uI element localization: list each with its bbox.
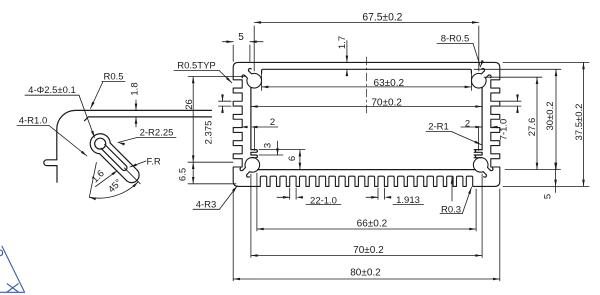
svg-text:2-R1: 2-R1 xyxy=(428,122,449,133)
svg-text:2: 2 xyxy=(465,119,470,130)
svg-text:2: 2 xyxy=(270,117,275,128)
svg-text:67.5±0.2: 67.5±0.2 xyxy=(362,11,402,23)
svg-text:2-R2.25: 2-R2.25 xyxy=(140,128,174,139)
svg-text:7-1.0: 7-1.0 xyxy=(499,119,510,141)
svg-text:6: 6 xyxy=(287,156,298,161)
svg-text:1.7: 1.7 xyxy=(337,36,348,49)
svg-text:27.6: 27.6 xyxy=(527,118,538,137)
svg-text:8-R0.5: 8-R0.5 xyxy=(441,34,470,45)
svg-text:1.8: 1.8 xyxy=(130,82,141,95)
svg-text:26: 26 xyxy=(184,99,195,110)
svg-text:3: 3 xyxy=(263,143,274,148)
svg-text:70±0.2: 70±0.2 xyxy=(371,97,402,108)
svg-text:5: 5 xyxy=(238,32,244,43)
svg-text:37.5±0.2: 37.5±0.2 xyxy=(574,104,585,141)
svg-text:R0.5: R0.5 xyxy=(103,72,123,83)
svg-text:80±0.2: 80±0.2 xyxy=(350,267,381,278)
svg-text:R0.5TYP: R0.5TYP xyxy=(177,61,216,72)
svg-text:4-R1.0: 4-R1.0 xyxy=(19,116,48,127)
svg-text:45°: 45° xyxy=(106,177,124,195)
svg-text:66±0.2: 66±0.2 xyxy=(357,219,388,230)
svg-text:4-Φ2.5±0.1: 4-Φ2.5±0.1 xyxy=(28,85,76,96)
svg-text:70±0.2: 70±0.2 xyxy=(353,245,384,256)
svg-text:63±0.2: 63±0.2 xyxy=(374,78,405,89)
svg-text:5: 5 xyxy=(543,194,554,199)
svg-text:F.R: F.R xyxy=(147,157,161,168)
svg-text:4-R3: 4-R3 xyxy=(196,200,217,211)
svg-text:6.5: 6.5 xyxy=(178,168,189,181)
svg-text:2.375: 2.375 xyxy=(204,121,215,145)
svg-text:30±0.2: 30±0.2 xyxy=(545,102,556,131)
